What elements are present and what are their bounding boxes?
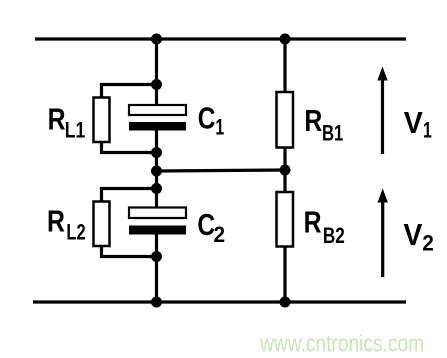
label RB2	[304, 205, 345, 248]
wire right trunk top segment	[283, 39, 286, 92]
label C2	[197, 207, 225, 247]
resistor RL1	[94, 98, 110, 143]
svg-text:R: R	[304, 205, 322, 239]
svg-text:V: V	[404, 106, 423, 140]
svg-text:V: V	[403, 218, 422, 252]
svg-text:2: 2	[214, 223, 226, 248]
wire RL1 top branch	[102, 85, 157, 99]
resistor RB1	[277, 92, 294, 148]
node bottom-right junction	[280, 297, 291, 308]
arrow V2	[378, 189, 388, 278]
svg-text:C: C	[198, 101, 216, 135]
wire middle rail	[157, 170, 286, 171]
svg-text:R: R	[48, 102, 66, 136]
wire C2 bottom lead	[155, 235, 158, 303]
svg-text:R: R	[304, 103, 322, 137]
label RL2	[47, 204, 86, 245]
svg-text:B2: B2	[323, 224, 345, 249]
resistor RL2	[94, 202, 110, 247]
wire left trunk middle segment	[155, 171, 158, 208]
wire RL1 bottom branch	[102, 142, 157, 153]
svg-text:R: R	[47, 204, 65, 238]
node RC2 bottom junction	[151, 251, 162, 262]
svg-text:L1: L1	[65, 119, 86, 143]
label V1	[404, 106, 432, 144]
node top-left junction	[151, 34, 162, 45]
svg-text:B1: B1	[322, 121, 343, 146]
node middle-left junction	[151, 166, 162, 177]
wire C1 bottom lead	[155, 130, 158, 171]
wire top rail	[35, 37, 406, 40]
svg-text:C: C	[197, 207, 215, 241]
wire RL2 bottom branch	[102, 246, 157, 257]
node RC1 top junction	[151, 79, 162, 90]
wire left trunk top segment	[155, 39, 158, 105]
svg-text:2: 2	[422, 231, 434, 256]
svg-text:1: 1	[215, 116, 224, 140]
arrow V1	[377, 67, 387, 155]
wire RB2 to bottom rail	[283, 246, 286, 302]
label RL1	[48, 102, 86, 143]
node middle-right junction	[280, 165, 291, 176]
resistor RB2	[277, 192, 294, 247]
node RC1 bottom junction	[151, 147, 162, 158]
svg-text:L2: L2	[66, 220, 85, 245]
svg-text:www.cntronics.com: www.cntronics.com	[259, 329, 424, 357]
wire RL2 top branch	[102, 189, 157, 203]
capacitor C1	[129, 105, 186, 131]
capacitor C2	[129, 208, 186, 235]
label RB1	[304, 103, 343, 146]
label C1	[198, 101, 225, 140]
node bottom-left junction	[151, 297, 162, 308]
wire RB1 to middle rail	[283, 147, 286, 192]
wire bottom rail	[33, 300, 406, 303]
node RC2 top junction	[151, 183, 162, 194]
label V2	[403, 218, 434, 256]
node top-right junction	[280, 34, 291, 45]
svg-text:1: 1	[423, 119, 432, 143]
